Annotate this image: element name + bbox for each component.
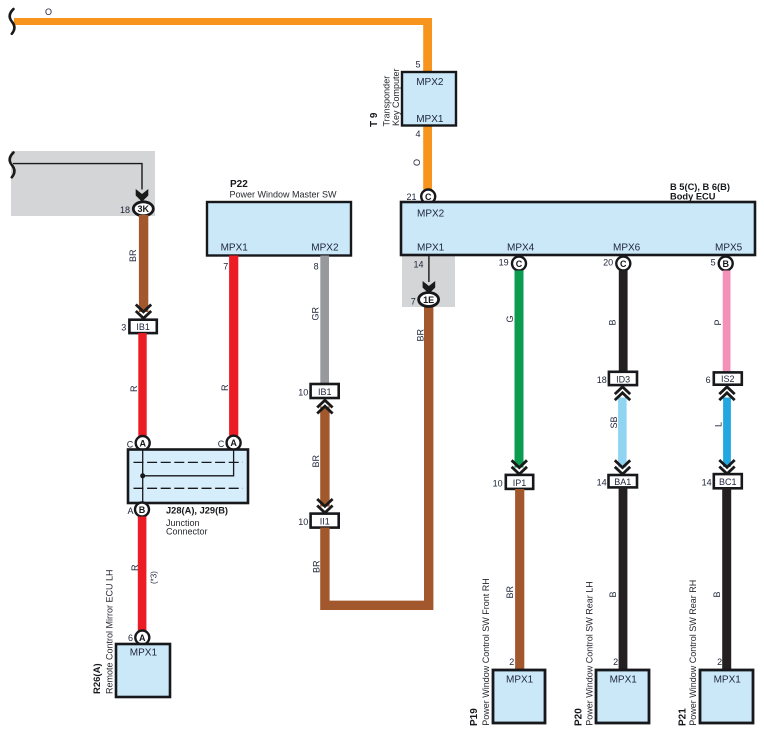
svg-text:8: 8 (314, 261, 319, 271)
svg-text:Key Computer: Key Computer (391, 68, 401, 126)
wire R from IB1 to junction (138, 333, 146, 436)
wire BR from 3K to IB1 (139, 215, 148, 312)
svg-text:18: 18 (597, 375, 607, 385)
svg-text:MPX1: MPX1 (506, 674, 534, 685)
svg-text:MPX5: MPX5 (715, 243, 743, 254)
svg-text:C: C (218, 439, 225, 449)
chevron into IP1 (512, 460, 527, 474)
svg-text:19: 19 (499, 258, 509, 268)
svg-text:B: B (608, 591, 618, 597)
svg-text:6: 6 (706, 375, 711, 385)
svg-text:BC1: BC1 (719, 477, 737, 487)
svg-text:5: 5 (711, 258, 716, 268)
svg-text:R26(A): R26(A) (92, 663, 103, 694)
chevron into BC1 (719, 460, 734, 474)
arrow into 1E (423, 281, 436, 294)
svg-text:P20: P20 (573, 708, 584, 726)
svg-text:10: 10 (493, 478, 503, 488)
block T9 Transponder Key Computer (402, 72, 456, 126)
svg-text:Power Window Control SW Rear L: Power Window Control SW Rear LH (585, 581, 595, 726)
svg-text:L: L (713, 422, 723, 427)
connector 3K (133, 202, 153, 216)
chevron out of IB1 (317, 400, 332, 413)
svg-text:14: 14 (702, 478, 712, 488)
svg-text:MPX2: MPX2 (417, 209, 445, 220)
svg-text:T 9: T 9 (369, 112, 380, 127)
arrow into 3K (136, 189, 149, 202)
svg-text:MPX1: MPX1 (416, 114, 444, 125)
chevron out of ID3 (615, 387, 630, 400)
svg-text:A: A (127, 506, 133, 516)
svg-text:MPX2: MPX2 (416, 77, 444, 88)
svg-text:3: 3 (121, 322, 126, 332)
thin wire to 1E (428, 256, 430, 283)
svg-text:BR: BR (311, 454, 321, 467)
svg-text:P22: P22 (230, 179, 248, 190)
wire BR IP1 to P19 (515, 489, 524, 670)
chevron into BA1 (615, 460, 630, 474)
svg-text:B: B (712, 591, 722, 597)
svg-text:Connector: Connector (166, 526, 208, 536)
svg-text:MPX1: MPX1 (221, 243, 249, 254)
svg-text:10: 10 (298, 387, 308, 397)
wire B BA1 to P20 (619, 487, 628, 670)
svg-text:Transponder: Transponder (381, 76, 391, 127)
chevron out of IS2 (719, 387, 734, 400)
junction connector J28(A), J29(B) (128, 450, 248, 504)
connector 1E (419, 293, 439, 307)
svg-text:BA1: BA1 (614, 477, 631, 487)
svg-text:C: C (425, 192, 432, 202)
svg-text:2: 2 (613, 657, 618, 667)
junction internal dashed bus (134, 461, 243, 463)
thin wire from break to 3K (13, 164, 142, 190)
connector circle 19 C (512, 257, 526, 271)
svg-text:R: R (220, 384, 230, 391)
svg-text:IP1: IP1 (513, 478, 527, 488)
svg-text:O: O (412, 159, 422, 166)
svg-text:P19: P19 (469, 708, 480, 726)
svg-text:14: 14 (597, 478, 607, 488)
svg-text:BR: BR (505, 585, 515, 598)
svg-text:Power Window Master SW: Power Window Master SW (230, 190, 338, 200)
wire orange vertical to Body ECU (423, 18, 432, 190)
block P20 MPX1 (596, 670, 649, 723)
svg-text:R: R (129, 385, 139, 392)
svg-text:MPX1: MPX1 (610, 674, 638, 685)
svg-text:J28(A), J29(B): J28(A), J29(B) (166, 506, 228, 516)
svg-text:B: B (722, 259, 729, 269)
wire B upper (619, 271, 628, 372)
gray shade box top-left (11, 151, 155, 216)
svg-text:C: C (516, 259, 523, 269)
connector 14 BA1 (609, 475, 638, 487)
svg-text:C: C (620, 259, 627, 269)
svg-text:B 5(C), B 6(B): B 5(C), B 6(B) (670, 182, 730, 192)
svg-text:BR: BR (312, 560, 322, 573)
chevron into IB1 (136, 305, 151, 319)
svg-text:1E: 1E (423, 295, 434, 305)
squiggle break at orange wire (10, 9, 15, 34)
svg-text:MPX1: MPX1 (714, 674, 742, 685)
svg-text:A: A (139, 439, 146, 449)
wire BR IB1 to II1 (320, 407, 329, 507)
connector circle A R26 (135, 631, 149, 645)
junction internal wire right (143, 450, 234, 476)
wire B BC1 to P21 (722, 488, 731, 670)
svg-text:A: A (139, 633, 146, 643)
svg-text:Power Window Control SW Rear R: Power Window Control SW Rear RH (688, 580, 698, 726)
svg-text:MPX4: MPX4 (507, 243, 535, 254)
wire L (723, 398, 731, 468)
svg-text:Body ECU: Body ECU (670, 191, 716, 201)
svg-text:2: 2 (509, 657, 514, 667)
wire P (723, 271, 731, 373)
svg-text:5: 5 (415, 59, 420, 69)
connector 18 ID3 (609, 372, 637, 385)
connector 14 BC1 (714, 474, 742, 488)
svg-text:IB1: IB1 (136, 322, 150, 332)
svg-text:6: 6 (128, 633, 133, 643)
svg-text:10: 10 (298, 517, 308, 527)
svg-text:P: P (713, 319, 723, 325)
svg-text:MPX2: MPX2 (311, 243, 339, 254)
svg-text:ID3: ID3 (616, 375, 630, 385)
svg-text:P21: P21 (678, 708, 689, 726)
wire BR U-shape from II1 to 1E (325, 307, 429, 606)
connector 10 II1 (311, 514, 339, 528)
svg-text:GR: GR (311, 306, 321, 320)
connector 6 IS2 (714, 372, 742, 384)
svg-text:A: A (230, 438, 237, 448)
block P21 MPX1 (700, 670, 753, 723)
connector circle 21 C (421, 190, 435, 204)
wire R from P22 pin7 (229, 256, 238, 436)
svg-text:R: R (130, 564, 140, 571)
squiggle break at gray box (10, 153, 15, 178)
connector 10 IP1 (506, 475, 533, 489)
wire R junction to R26 (138, 517, 147, 631)
svg-text:Power Window Control SW Front: Power Window Control SW Front RH (481, 578, 491, 726)
svg-text:(*3): (*3) (150, 571, 159, 584)
svg-text:21: 21 (406, 192, 416, 202)
svg-text:G: G (505, 315, 515, 322)
svg-text:7: 7 (411, 297, 416, 307)
svg-text:3K: 3K (138, 204, 150, 214)
svg-text:7: 7 (223, 261, 228, 271)
svg-text:II1: II1 (320, 517, 330, 527)
svg-text:C: C (127, 439, 134, 449)
svg-text:14: 14 (414, 260, 424, 270)
wire orange horizontal O (14, 18, 432, 25)
connector circle 20 C (616, 257, 630, 271)
svg-text:4: 4 (415, 129, 420, 139)
block R26 MPX1 (116, 644, 170, 697)
connector 3 IB1 (129, 320, 156, 333)
svg-text:2: 2 (717, 657, 722, 667)
svg-text:IB1: IB1 (318, 387, 332, 397)
svg-text:Remote Control Mirror ECU LH: Remote Control Mirror ECU LH (105, 569, 115, 694)
svg-text:O: O (45, 7, 52, 17)
junction dot (140, 473, 145, 478)
gray shade box below Body ECU MPX1 (402, 255, 455, 307)
connector circle 5 B (719, 257, 733, 271)
svg-text:MPX1: MPX1 (417, 243, 445, 254)
svg-text:MPX6: MPX6 (613, 243, 641, 254)
svg-text:BR: BR (415, 328, 425, 341)
block P22 (207, 202, 351, 256)
block P19 MPX1 (493, 670, 545, 723)
svg-text:B: B (139, 505, 146, 515)
chevron into II1 (317, 499, 332, 513)
svg-text:20: 20 (603, 258, 613, 268)
svg-text:IS2: IS2 (721, 374, 735, 384)
svg-text:MPX1: MPX1 (130, 648, 158, 659)
wire SB (618, 398, 627, 468)
svg-text:SB: SB (609, 416, 619, 428)
svg-text:18: 18 (120, 205, 130, 215)
junction internal wire left (142, 450, 144, 503)
block Body ECU (401, 202, 755, 255)
wire GR from P22 pin8 (320, 256, 329, 385)
wire G (515, 271, 524, 468)
svg-text:B: B (608, 319, 618, 325)
connector 10 IB1 (311, 384, 339, 398)
svg-text:BR: BR (128, 249, 138, 262)
